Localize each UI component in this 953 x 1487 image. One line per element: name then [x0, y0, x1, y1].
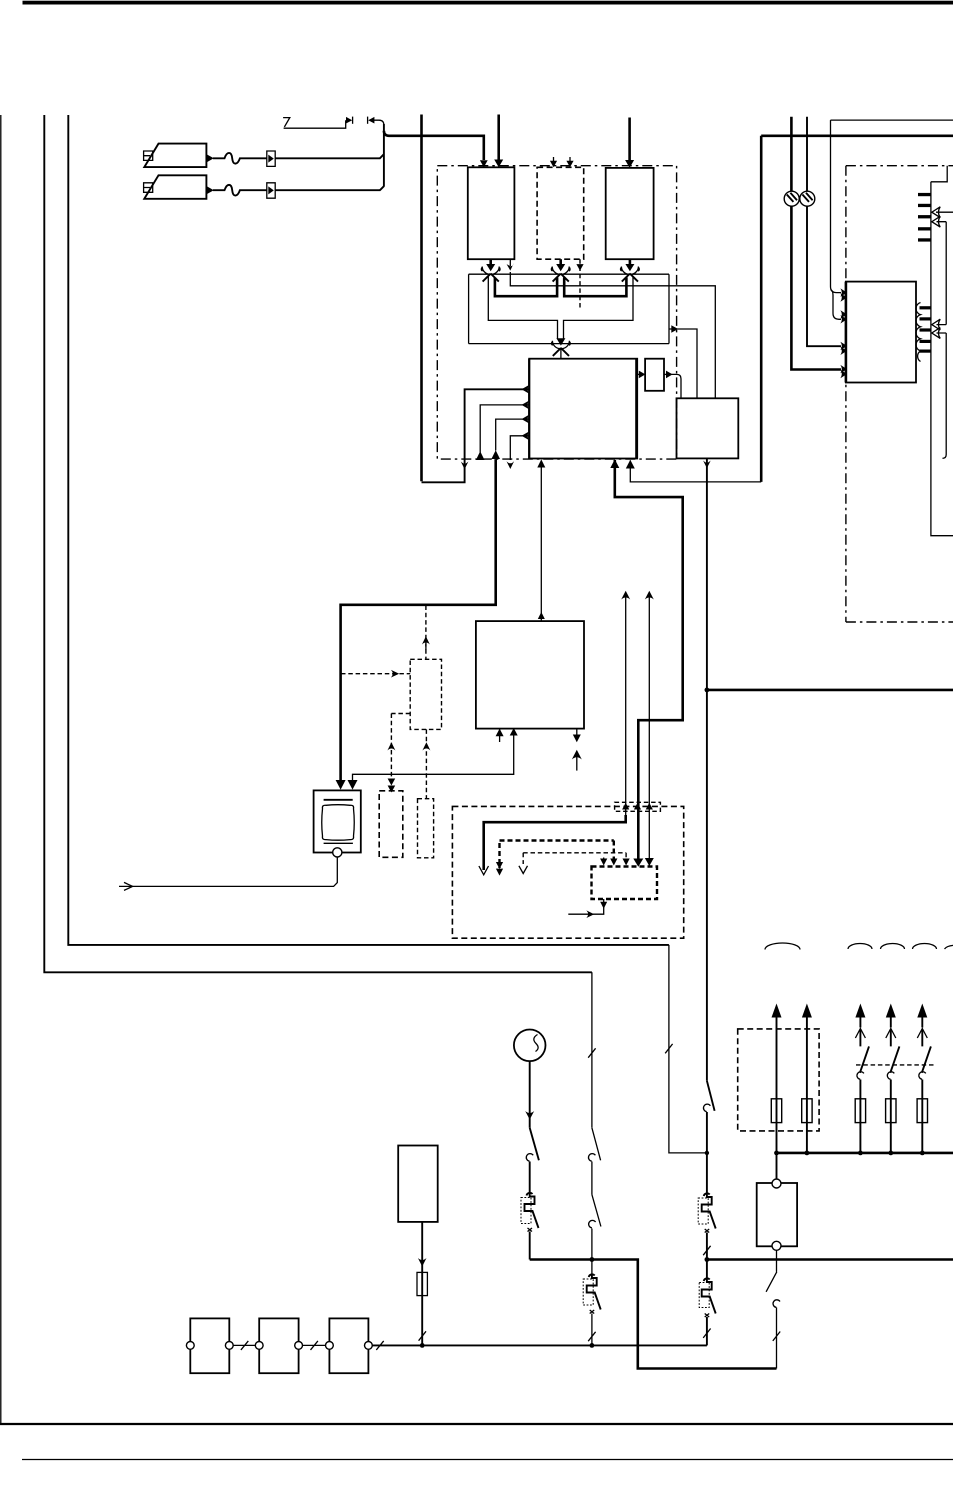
relay coil symbols	[916, 303, 921, 362]
heavy feeder wire to right	[384, 131, 484, 160]
heavy feeder wire into U3	[628, 118, 631, 162]
thick dashed wire	[500, 841, 614, 869]
antenna A2 feed arrow	[207, 186, 214, 194]
thick link CN1-CN2	[495, 278, 557, 297]
fusible link branch x592	[588, 972, 601, 1274]
wire w2 stub main unit pin2	[480, 405, 529, 453]
dashed rect DB2	[418, 799, 434, 858]
gang bar dashed	[856, 1064, 936, 1066]
sensor box output wire	[421, 1222, 423, 1346]
alternator output wire	[529, 1061, 531, 1128]
display ground wire to left	[119, 857, 337, 886]
wire W-A main unit bottom to EFI connector	[615, 460, 683, 862]
stub arrows into U2 top	[553, 157, 555, 162]
bottom page border	[0, 1423, 953, 1425]
thin dashed wire	[523, 853, 626, 864]
dashed wire D4 DA to DB2	[425, 729, 427, 798]
power feed horizontal at y690	[707, 689, 953, 692]
antenna A1 body	[144, 144, 206, 168]
pin arrows into R1 left edge	[840, 288, 847, 296]
heavy feeder wire top right segment	[761, 135, 953, 138]
antenna A1 inline connector	[267, 151, 275, 166]
main unit thick right edge	[635, 359, 638, 459]
dashed wire D1 into DA left	[341, 673, 410, 675]
switch fuse column D	[886, 1004, 900, 1156]
ignition switch branch x707	[698, 1081, 716, 1346]
dash-dot enclosure radio assembly	[437, 166, 676, 459]
signal wire from CN row to right box	[510, 272, 715, 398]
battery box 3	[329, 1318, 368, 1373]
accessory bus y1153	[777, 1152, 953, 1155]
rod antenna A3 lead wire	[374, 120, 384, 125]
antenna A2 body	[144, 175, 206, 199]
large dashed enclosure	[452, 806, 683, 938]
tap wire ring to right box	[669, 329, 697, 398]
two sensor wires up arrows	[625, 595, 627, 823]
main relay box	[757, 1183, 797, 1246]
sensor feed box	[398, 1146, 438, 1222]
dashed rect DB1	[379, 791, 403, 858]
stub arrow middle box bottom	[499, 729, 501, 742]
dashed fuse block	[738, 1029, 819, 1131]
dashed stub below U2	[579, 259, 581, 309]
heavy vertical feeder at x421	[420, 115, 423, 482]
long wire B2 down to ignition switch	[706, 458, 708, 1080]
wire R2 loop	[937, 222, 947, 325]
lamp L1	[784, 191, 799, 206]
dashed rect DA	[410, 659, 441, 729]
heavy feeder wire into U1 right pin	[497, 115, 500, 162]
relay bottom switch	[766, 1250, 777, 1292]
CRT screen	[322, 805, 355, 841]
dashed wire D2 into DA top	[425, 606, 427, 660]
antenna A1 feed arrow	[207, 155, 214, 163]
antenna A2 coax squiggle	[213, 185, 267, 196]
switch SW1 blade	[530, 1128, 539, 1161]
header bar	[23, 1, 953, 5]
battery box 2	[259, 1318, 298, 1373]
antenna A2 lead wire	[275, 186, 384, 190]
inner box output wire	[568, 899, 603, 914]
wire w3 main unit pin3 to display	[496, 419, 530, 450]
stub arrows below middle box right	[576, 729, 578, 739]
unit box U2 (dashed option)	[537, 167, 584, 259]
connector bus vertical	[931, 166, 953, 536]
coil pin ticks	[920, 306, 931, 309]
feed wire from top right corner	[831, 120, 842, 293]
battery link wires	[233, 1341, 255, 1350]
antenna A1 coax squiggle	[213, 153, 267, 164]
lighting branch link	[669, 945, 707, 1153]
connector CN1 below U1	[481, 259, 500, 281]
wire W-B main unit bottom loop to heavy top line	[630, 461, 761, 482]
antenna A1 plug tab	[144, 151, 153, 160]
wire w4 stub main unit pin4	[510, 436, 529, 460]
relay top wire to bus	[776, 1153, 778, 1179]
dashed wire D3 DA to DB1	[391, 714, 410, 788]
display unit (CRT monitor)	[314, 790, 361, 852]
middle box (amplifier)	[476, 621, 584, 729]
lamp L2	[800, 191, 815, 206]
inner dashed unit box	[592, 867, 658, 900]
antenna junction bus vertical	[383, 124, 385, 187]
right box B2	[677, 398, 739, 458]
wire U4 to right box	[664, 373, 667, 375]
stub arrow into inner box	[603, 858, 605, 861]
wire middle box to main unit bottom	[540, 461, 542, 621]
display bottom terminal	[333, 848, 342, 857]
rod antenna A3 symbol	[283, 118, 346, 129]
wire R1 from off page	[936, 211, 953, 213]
battery bus y1345	[372, 1344, 707, 1346]
wire R3 down	[937, 333, 947, 458]
SW1 lower wire	[529, 1162, 531, 1193]
lamp L2 feed wire	[807, 117, 841, 346]
long wire from left column to lighting branch	[68, 115, 669, 945]
battery terminals	[186, 1342, 194, 1350]
main bus right y1260	[707, 1258, 953, 1261]
wire middle box to display top right	[353, 729, 514, 783]
connector CN3 below U3	[621, 259, 640, 281]
circuit breaker CB2	[583, 1274, 601, 1348]
alternator circle	[514, 1030, 546, 1062]
switch fuse column C	[855, 1004, 869, 1156]
connector pin ticks top	[918, 193, 931, 196]
unit box U1	[468, 167, 515, 259]
unit box U3	[606, 168, 654, 259]
circuit breaker CB1	[521, 1193, 539, 1260]
battery box 1	[190, 1318, 229, 1373]
dash-dot enclosure right	[846, 166, 953, 622]
fuse column A	[771, 1004, 781, 1153]
thick link CN2-CN3	[564, 278, 626, 297]
antenna A2 plug tab	[144, 183, 153, 193]
dashed connector box on top edge	[615, 802, 661, 811]
antenna A2 inline connector	[267, 183, 275, 198]
stub arrow below U1 right	[509, 259, 511, 266]
rod antenna A3 connector arrows	[346, 117, 352, 124]
merge wire right branch	[564, 277, 634, 339]
feed bus upper y1260	[530, 1260, 777, 1369]
lamp L1 feed wire	[791, 117, 841, 370]
footer rule	[22, 1459, 953, 1461]
merge wire left branch	[488, 277, 557, 339]
small unit box U4	[645, 359, 664, 391]
long wire from left column to fusible link branch	[44, 115, 592, 972]
feeder wire into U1 left pin	[480, 160, 488, 167]
bus wire ring	[469, 274, 669, 343]
fuse F0	[417, 1272, 427, 1295]
connector CN2 below U2	[551, 259, 570, 281]
wire w1 loop main unit pin1 to top feeder	[422, 389, 530, 482]
main unit thick left edge	[528, 359, 530, 459]
fuse column B	[802, 1004, 812, 1156]
harness arcs row	[765, 943, 953, 949]
arrow main unit to U4	[638, 373, 640, 375]
switch fuse column E	[917, 1004, 931, 1156]
relay unit box R1	[846, 282, 916, 383]
top right thin feeder	[831, 119, 953, 121]
heavy vertical wire at x761	[760, 136, 763, 482]
thick wire inside enclosure	[484, 815, 626, 870]
left page border	[0, 115, 2, 1424]
connector CN4 to main unit	[552, 338, 571, 358]
antenna A1 lead wire	[275, 154, 384, 158]
main unit box	[529, 359, 637, 459]
